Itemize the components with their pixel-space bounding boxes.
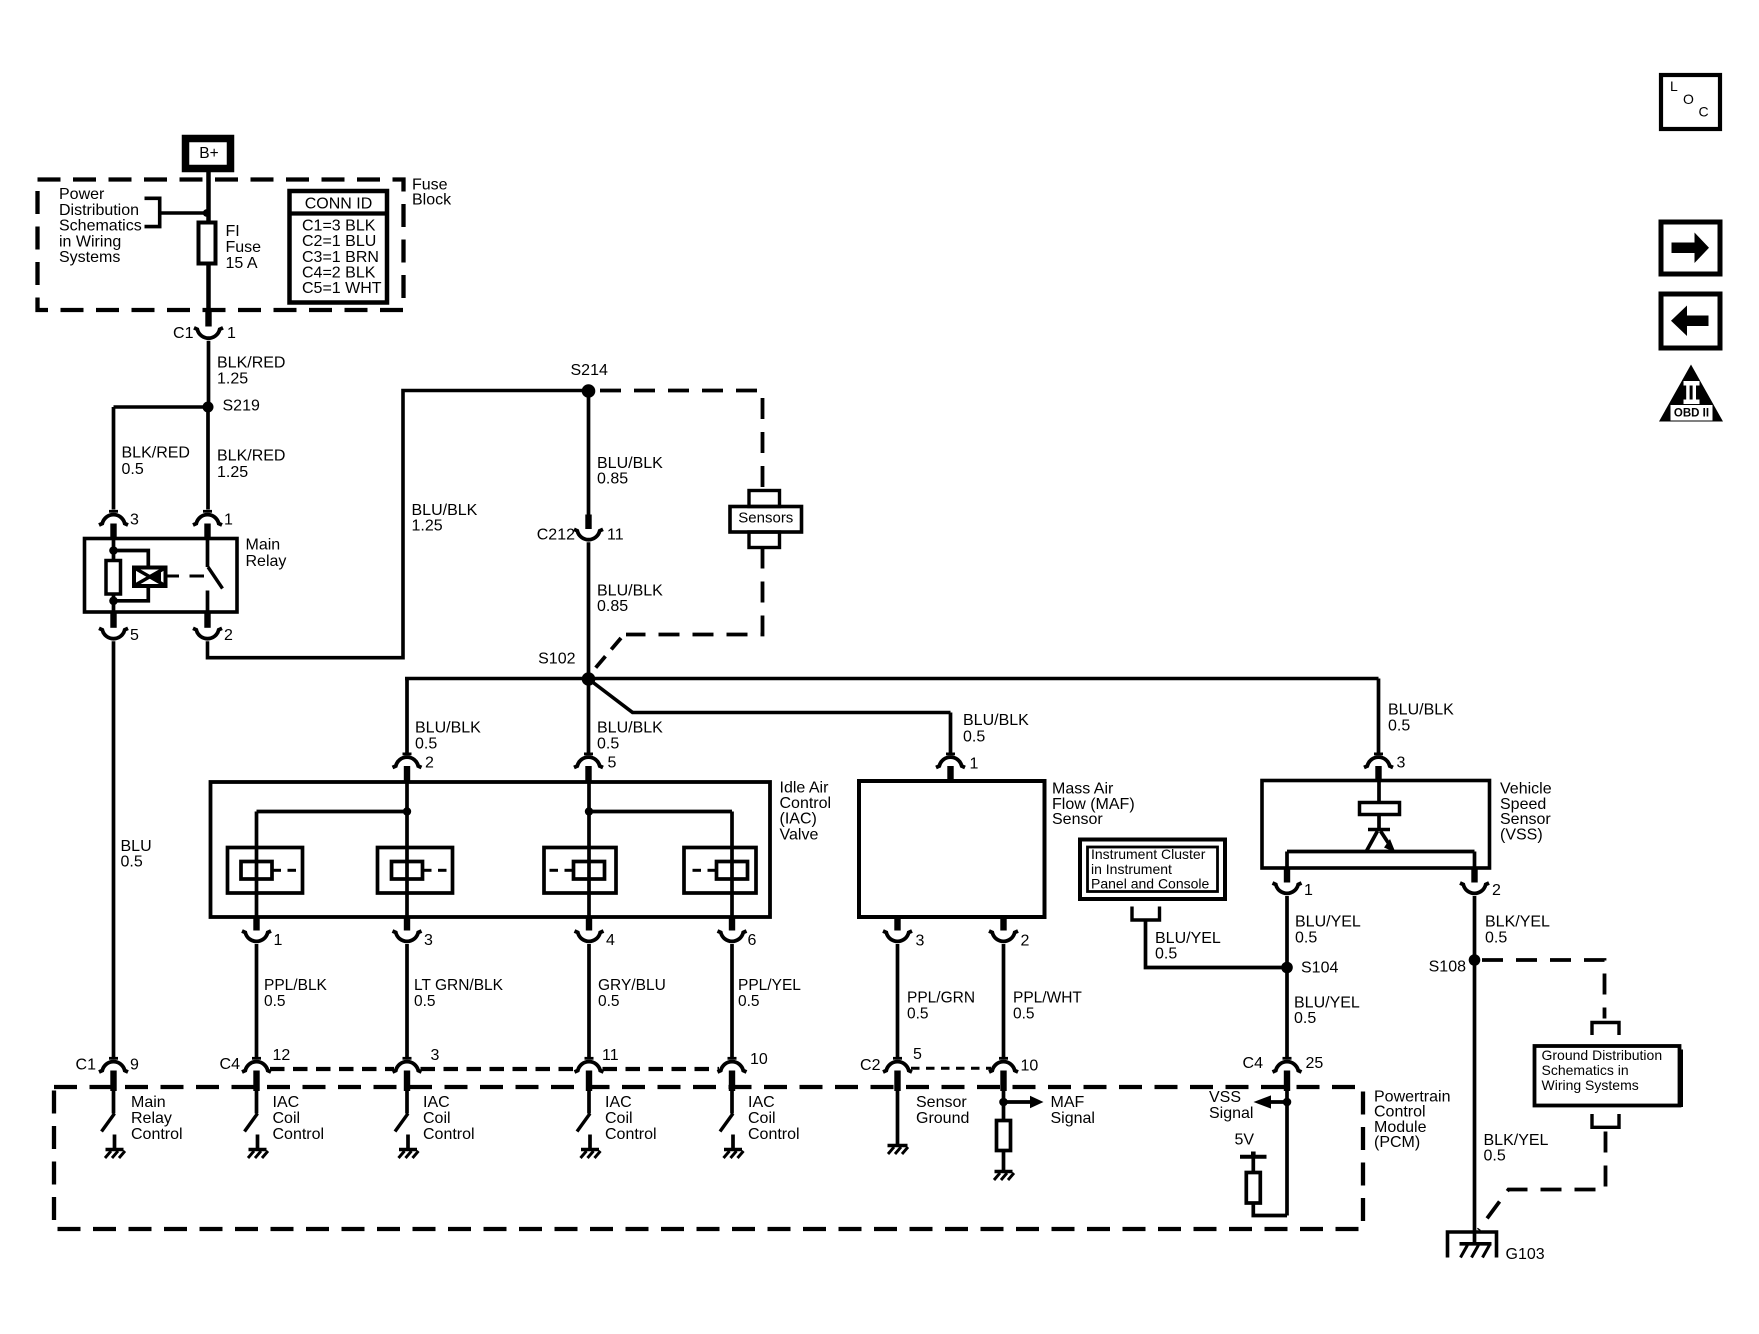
IAC internal bus left xyxy=(257,807,412,815)
IAC coil wire 3 xyxy=(587,782,591,917)
svg-text:C3=1 BRN: C3=1 BRN xyxy=(302,249,379,266)
svg-text:Signal: Signal xyxy=(1209,1105,1253,1122)
svg-text:0.5: 0.5 xyxy=(738,993,760,1010)
bracket from note to wire xyxy=(145,198,211,226)
wire C212 to S102 BLU/BLK 0.85 xyxy=(589,542,664,675)
svg-text:Fuse: Fuse xyxy=(226,239,262,256)
svg-text:5: 5 xyxy=(913,1046,922,1063)
MAF pin 1 connector xyxy=(936,754,979,781)
svg-text:PPL/YEL: PPL/YEL xyxy=(738,977,801,994)
svg-text:O: O xyxy=(1683,91,1694,107)
svg-text:C4: C4 xyxy=(220,1056,241,1073)
PCM dashed box xyxy=(54,1087,1363,1229)
relay pin 3 connector xyxy=(99,511,139,539)
PCM VSS pullup resistor xyxy=(1246,1173,1287,1216)
PCM 5V supply xyxy=(1235,1132,1267,1173)
wire relay pin2 to S214 BLU/BLK 1.25 xyxy=(208,391,584,658)
dotted connector line C4 pins 11-10 xyxy=(603,1067,720,1071)
svg-text:0.5: 0.5 xyxy=(1295,930,1317,947)
svg-text:0.5: 0.5 xyxy=(121,854,143,871)
svg-text:2: 2 xyxy=(1492,882,1501,899)
svg-text:Control: Control xyxy=(131,1126,183,1143)
wire label BLU/YEL 0.5 lower xyxy=(1294,995,1360,1028)
sensors bottom plug xyxy=(749,532,780,548)
IAC pin 6 connector xyxy=(718,917,757,949)
svg-text:C1=3 BLK: C1=3 BLK xyxy=(302,218,376,235)
svg-text:L: L xyxy=(1670,78,1678,94)
svg-text:C4=2 BLK: C4=2 BLK xyxy=(302,264,376,281)
svg-text:0.85: 0.85 xyxy=(597,598,628,615)
svg-text:Coil: Coil xyxy=(423,1110,451,1127)
svg-text:9: 9 xyxy=(130,1057,139,1074)
ground note top bracket xyxy=(1592,1023,1619,1036)
svg-text:Sensors: Sensors xyxy=(738,509,793,526)
svg-text:11: 11 xyxy=(607,527,624,544)
svg-text:IAC: IAC xyxy=(423,1094,450,1111)
node S104 xyxy=(1281,960,1338,977)
svg-text:2: 2 xyxy=(1021,933,1030,950)
PCM IAC coil control switch 1 and ground xyxy=(245,1091,325,1158)
svg-text:S102: S102 xyxy=(538,651,575,668)
wire B+ to fuse F1 xyxy=(206,171,211,310)
svg-text:BLU/BLK: BLU/BLK xyxy=(415,720,481,737)
svg-text:1.25: 1.25 xyxy=(412,518,443,535)
svg-text:5: 5 xyxy=(608,755,617,772)
svg-text:0.5: 0.5 xyxy=(598,993,620,1010)
sensors top plug xyxy=(749,491,780,507)
svg-text:1: 1 xyxy=(224,512,233,529)
PCM MAF signal node and arrow xyxy=(999,1091,1095,1127)
IAC coil L1 xyxy=(228,848,303,894)
wire S102 to VSS pin 3 BLU/BLK 0.5 xyxy=(589,679,1455,754)
OBD II triangle icon xyxy=(1659,365,1723,422)
svg-text:PPL/GRN: PPL/GRN xyxy=(907,990,975,1007)
svg-text:GRY/BLU: GRY/BLU xyxy=(598,977,666,994)
wire IAC-3 to PCM LT GRN/BLK 0.5 xyxy=(407,944,504,1058)
IAC pin 2 connector xyxy=(393,754,435,782)
wire VSS-2 BLK/YEL 0.5 xyxy=(1475,896,1551,1244)
battery terminal B+ xyxy=(186,139,231,169)
IAC pin 4 connector xyxy=(575,917,616,949)
svg-text:0.5: 0.5 xyxy=(1485,930,1507,947)
svg-text:(VSS): (VSS) xyxy=(1500,826,1543,843)
node S219 xyxy=(203,398,260,415)
svg-text:Main: Main xyxy=(246,537,281,554)
svg-text:Panel and Console: Panel and Console xyxy=(1091,876,1210,892)
dashed wire S214 to Sensors xyxy=(600,391,763,490)
svg-text:C5=1 WHT: C5=1 WHT xyxy=(302,280,382,297)
svg-text:S108: S108 xyxy=(1429,959,1466,976)
svg-text:Schematics in: Schematics in xyxy=(1542,1062,1629,1078)
svg-text:IAC: IAC xyxy=(605,1094,632,1111)
wire MAF-3 to PCM PPL/GRN 0.5 xyxy=(898,944,976,1058)
svg-text:1.25: 1.25 xyxy=(217,371,248,388)
label FI Fuse 15 A xyxy=(226,223,262,272)
PCM MAF pulldown resistor xyxy=(997,1121,1011,1172)
PCM connector pin 11 at x=589 xyxy=(575,1047,619,1091)
svg-text:Block: Block xyxy=(412,192,452,209)
svg-text:0.5: 0.5 xyxy=(1294,1010,1316,1027)
svg-text:BLK/RED: BLK/RED xyxy=(122,445,190,462)
location icon box (LOC) xyxy=(1661,75,1720,129)
svg-text:0.5: 0.5 xyxy=(1388,717,1410,734)
svg-text:1: 1 xyxy=(1304,882,1313,899)
svg-text:3: 3 xyxy=(1397,755,1406,772)
svg-text:IAC: IAC xyxy=(273,1094,300,1111)
svg-text:3: 3 xyxy=(431,1047,440,1064)
IAC coil L2 xyxy=(378,848,453,894)
svg-text:0.5: 0.5 xyxy=(907,1006,929,1023)
svg-text:Control: Control xyxy=(423,1126,475,1143)
svg-text:(PCM): (PCM) xyxy=(1374,1134,1420,1151)
svg-text:MAF: MAF xyxy=(1051,1094,1085,1111)
svg-text:S214: S214 xyxy=(571,362,608,379)
CONN ID table xyxy=(290,191,388,303)
svg-text:0.5: 0.5 xyxy=(1155,946,1177,963)
note Power Distribution Schematics in Wiring Systems xyxy=(59,186,142,266)
MAF sensor box xyxy=(859,781,1045,917)
svg-text:Systems: Systems xyxy=(59,249,120,266)
svg-text:2: 2 xyxy=(425,755,434,772)
label Mass Air Flow (MAF) Sensor xyxy=(1052,781,1135,829)
svg-text:BLU/YEL: BLU/YEL xyxy=(1295,914,1361,931)
svg-text:0.5: 0.5 xyxy=(415,736,437,753)
svg-text:0.85: 0.85 xyxy=(597,471,628,488)
svg-text:Coil: Coil xyxy=(273,1110,301,1127)
svg-text:IAC: IAC xyxy=(748,1094,775,1111)
svg-text:0.5: 0.5 xyxy=(1013,1006,1035,1023)
PCM connector pin 10 at x=1003.5 xyxy=(989,1058,1038,1092)
PCM sensor ground xyxy=(888,1091,970,1154)
svg-text:25: 25 xyxy=(1306,1055,1324,1072)
relay coil crossed-box symbol xyxy=(134,568,166,587)
svg-text:Control: Control xyxy=(748,1126,800,1143)
fuse F1 15 A xyxy=(199,223,216,264)
svg-text:Distribution: Distribution xyxy=(59,202,139,219)
VSS pin 3 connector xyxy=(1364,754,1406,781)
node S108 xyxy=(1429,954,1481,975)
node S102 xyxy=(538,651,595,686)
wire S102 to MAF pin 1 BLU/BLK 0.5 xyxy=(589,679,1030,753)
svg-text:Ground Distribution: Ground Distribution xyxy=(1542,1047,1663,1063)
svg-text:Instrument Cluster: Instrument Cluster xyxy=(1091,846,1206,862)
svg-text:BLU: BLU xyxy=(121,838,152,855)
relay coil resistor xyxy=(106,539,121,612)
PCM IAC coil control switch 3 and ground xyxy=(577,1091,657,1158)
wire relay pin5 to PCM C1-9 BLU 0.5 xyxy=(114,641,152,1057)
svg-text:BLK/RED: BLK/RED xyxy=(217,355,285,372)
IAC pin 5 connector xyxy=(574,754,617,782)
svg-text:C: C xyxy=(1699,104,1709,120)
svg-text:BLU/YEL: BLU/YEL xyxy=(1294,995,1360,1012)
PCM VSS signal node and arrow xyxy=(1209,1089,1291,1216)
wire S102 to IAC pin 5 BLU/BLK 0.5 xyxy=(589,679,664,753)
svg-text:Control: Control xyxy=(780,795,832,812)
svg-text:0.5: 0.5 xyxy=(1484,1148,1506,1165)
dotted connector line C4 pins 3-11 xyxy=(421,1067,577,1071)
main relay box xyxy=(85,539,238,613)
svg-text:2: 2 xyxy=(224,627,233,644)
wire C1-1 to S219 BLK/RED 1.25 xyxy=(209,341,286,404)
IAC coil wire 2 xyxy=(405,782,409,917)
svg-text:10: 10 xyxy=(1021,1058,1039,1075)
instrument cluster box xyxy=(1080,840,1225,900)
svg-text:0.5: 0.5 xyxy=(414,993,436,1010)
dashed wire S108 to ground note xyxy=(1482,960,1605,1019)
svg-text:BLU/BLK: BLU/BLK xyxy=(597,720,663,737)
node S214 xyxy=(571,362,608,398)
MAF pin 3 connector xyxy=(883,917,925,950)
svg-text:G103: G103 xyxy=(1506,1246,1545,1263)
svg-text:6: 6 xyxy=(748,932,757,949)
svg-text:Ground: Ground xyxy=(916,1110,969,1127)
svg-text:Control: Control xyxy=(273,1126,325,1143)
PCM connector C4-pin 25 at x=1287 xyxy=(1243,1055,1324,1091)
svg-text:BLU/BLK: BLU/BLK xyxy=(963,712,1029,729)
svg-text:BLU/YEL: BLU/YEL xyxy=(1155,930,1221,947)
sensors box xyxy=(730,507,802,533)
wire MAF-2 to PCM PPL/WHT 0.5 xyxy=(1004,944,1083,1058)
relay switch xyxy=(208,539,223,612)
svg-text:Schematics: Schematics xyxy=(59,218,142,235)
back arrow icon xyxy=(1661,294,1720,348)
svg-text:in Wiring: in Wiring xyxy=(59,233,121,250)
MAF pin 2 connector xyxy=(989,917,1030,950)
svg-text:BLU/BLK: BLU/BLK xyxy=(597,455,663,472)
svg-text:OBD II: OBD II xyxy=(1674,407,1709,419)
PCM MAF resistor ground xyxy=(994,1172,1014,1181)
svg-text:4: 4 xyxy=(606,932,615,949)
wire IAC-6 to PCM PPL/YEL 0.5 xyxy=(732,944,801,1058)
relay pin 5 connector xyxy=(99,612,139,644)
svg-text:Coil: Coil xyxy=(605,1110,633,1127)
svg-text:BLK/YEL: BLK/YEL xyxy=(1484,1132,1549,1149)
ground G103 xyxy=(1448,1232,1545,1263)
svg-text:Wiring Systems: Wiring Systems xyxy=(1542,1077,1639,1093)
IAC coil L3 xyxy=(544,848,616,894)
svg-text:3: 3 xyxy=(424,932,433,949)
svg-text:Valve: Valve xyxy=(780,826,819,843)
PCM connector pin 3 at x=407 xyxy=(393,1047,440,1091)
svg-text:VSS: VSS xyxy=(1209,1089,1241,1106)
svg-text:3: 3 xyxy=(916,933,925,950)
ground note bottom bracket xyxy=(1592,1114,1619,1127)
svg-text:0.5: 0.5 xyxy=(122,461,144,478)
svg-text:(IAC): (IAC) xyxy=(780,811,817,828)
forward arrow icon xyxy=(1661,222,1720,274)
PCM connector C4-pin 12 at x=256.5 xyxy=(220,1047,291,1091)
IAC coil L4 xyxy=(684,848,756,894)
svg-text:Sensor: Sensor xyxy=(1052,811,1103,828)
svg-text:Relay: Relay xyxy=(246,553,287,570)
connector C1 pin 1 (fuse block) xyxy=(173,310,236,342)
dashed wire ground note to G103 xyxy=(1479,1132,1606,1231)
svg-text:1.25: 1.25 xyxy=(217,464,248,481)
svg-text:BLK/YEL: BLK/YEL xyxy=(1485,914,1550,931)
PCM connector C2-pin 5 at x=897.5 xyxy=(860,1046,922,1091)
svg-text:C1: C1 xyxy=(76,1057,97,1074)
relay coil parallel loop xyxy=(109,546,148,605)
fuse block dashed box xyxy=(38,180,404,311)
svg-text:Signal: Signal xyxy=(1051,1110,1095,1127)
svg-text:C2: C2 xyxy=(860,1057,881,1074)
instrument cluster bracket xyxy=(1132,907,1160,921)
relay pin 1 connector xyxy=(193,511,233,539)
svg-text:1: 1 xyxy=(227,325,236,342)
wire label BLK/YEL 0.5 lower xyxy=(1484,1132,1549,1165)
svg-text:C212: C212 xyxy=(537,527,575,544)
wire S102 to IAC pin 2 BLU/BLK 0.5 xyxy=(405,679,590,754)
svg-text:Power: Power xyxy=(59,186,105,203)
svg-text:12: 12 xyxy=(273,1047,291,1064)
VSS pin 1 connector xyxy=(1273,868,1314,899)
dotted connector line C4 pins 12-3 xyxy=(270,1067,394,1071)
label Fuse Block xyxy=(412,177,452,209)
connector C212 pin 11 xyxy=(537,515,624,544)
svg-text:S219: S219 xyxy=(223,398,260,415)
svg-text:1: 1 xyxy=(970,756,979,773)
svg-text:Relay: Relay xyxy=(131,1110,172,1127)
PCM IAC coil control switch 2 and ground xyxy=(395,1091,475,1158)
PCM IAC coil control switch 4 and ground xyxy=(720,1091,800,1158)
dashed wire Sensors to S102 xyxy=(590,548,763,676)
wire right BLK/RED 1.25 xyxy=(208,407,285,510)
label Main Relay xyxy=(246,537,287,571)
svg-text:FI: FI xyxy=(226,223,240,240)
VSS box xyxy=(1262,781,1490,869)
ground distribution note box xyxy=(1535,1046,1684,1107)
svg-text:S104: S104 xyxy=(1301,960,1338,977)
svg-text:PPL/WHT: PPL/WHT xyxy=(1013,990,1082,1007)
svg-text:5: 5 xyxy=(130,627,139,644)
svg-text:C1: C1 xyxy=(173,325,194,342)
relay pin 2 connector xyxy=(193,612,233,644)
VSS output transistor xyxy=(1287,830,1475,869)
svg-text:LT GRN/BLK: LT GRN/BLK xyxy=(414,977,504,994)
svg-text:PPL/BLK: PPL/BLK xyxy=(264,977,328,994)
svg-text:BLU/BLK: BLU/BLK xyxy=(1388,702,1454,719)
wire IAC-1 to PCM PPL/BLK 0.5 xyxy=(257,944,328,1058)
VSS internal resistor xyxy=(1360,781,1400,830)
svg-text:Main: Main xyxy=(131,1094,166,1111)
label Idle Air Control (IAC) Valve xyxy=(780,780,832,844)
svg-text:BLU/BLK: BLU/BLK xyxy=(412,502,478,519)
IAC pin 1 connector xyxy=(242,917,283,949)
svg-text:Idle Air: Idle Air xyxy=(780,780,830,797)
IAC internal bus right xyxy=(585,807,732,815)
svg-text:CONN ID: CONN ID xyxy=(305,196,373,213)
svg-text:0.5: 0.5 xyxy=(597,736,619,753)
svg-text:0.5: 0.5 xyxy=(264,993,286,1010)
svg-text:BLK/RED: BLK/RED xyxy=(217,448,285,465)
dotted connector line C2 pins 5-10 xyxy=(911,1067,991,1070)
IAC valve box xyxy=(211,782,771,917)
label Vehicle Speed Sensor (VSS) xyxy=(1500,781,1552,844)
svg-text:C2=1 BLU: C2=1 BLU xyxy=(302,233,376,250)
wire VSS-1 BLU/YEL 0.5 xyxy=(1287,896,1361,1058)
IAC coil wire 1 xyxy=(255,812,259,918)
VSS pin 2 connector xyxy=(1460,868,1501,899)
svg-text:3: 3 xyxy=(130,512,139,529)
svg-text:5V: 5V xyxy=(1235,1132,1255,1149)
label Powertrain Control Module (PCM) xyxy=(1374,1089,1450,1152)
relay mechanical linkage dashes xyxy=(166,575,204,578)
svg-text:15 A: 15 A xyxy=(226,255,258,272)
svg-text:Coil: Coil xyxy=(748,1110,776,1127)
IAC pin 3 connector xyxy=(393,917,434,949)
PCM connector C1-pin 9 at x=113.5 xyxy=(76,1057,139,1092)
svg-text:10: 10 xyxy=(750,1051,768,1068)
wire S214 to C212 BLU/BLK 0.85 xyxy=(589,391,664,515)
svg-text:Sensor: Sensor xyxy=(916,1094,967,1111)
svg-text:Control: Control xyxy=(605,1126,657,1143)
svg-text:in Instrument: in Instrument xyxy=(1091,861,1172,877)
svg-text:C4: C4 xyxy=(1243,1055,1264,1072)
PCM connector pin 10 at x=732 xyxy=(718,1051,768,1091)
PCM main relay control switch and ground xyxy=(102,1091,183,1158)
svg-text:B+: B+ xyxy=(199,145,218,162)
wire left BLK/RED 0.5 xyxy=(114,407,190,510)
IAC coil wire 4 xyxy=(730,812,734,918)
svg-text:0.5: 0.5 xyxy=(963,728,985,745)
svg-text:1: 1 xyxy=(274,932,283,949)
wire cluster to S104 BLU/YEL 0.5 xyxy=(1146,920,1285,968)
svg-text:11: 11 xyxy=(602,1047,619,1064)
svg-text:BLU/BLK: BLU/BLK xyxy=(597,583,663,600)
wire IAC-4 to PCM GRY/BLU 0.5 xyxy=(589,944,666,1058)
wire S219 branch left xyxy=(114,405,210,409)
